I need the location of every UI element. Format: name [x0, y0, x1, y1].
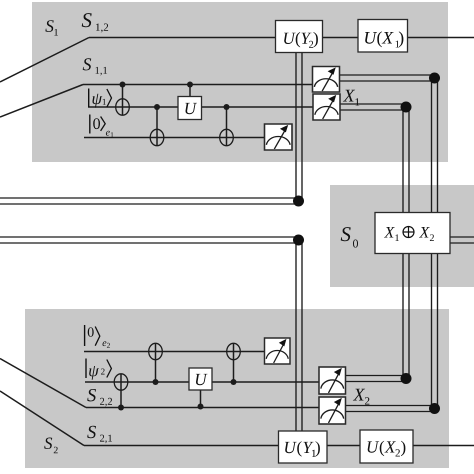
label S2,2 — [87, 389, 112, 406]
gate box U(X1) — [358, 20, 408, 53]
gate box U bottom (controlled-U) — [189, 368, 212, 390]
classical wire Y2 horizontal pair — [0, 198, 302, 204]
gate box U(Y1) — [279, 431, 328, 463]
junction dot Y1 — [293, 235, 304, 246]
label S2,1 — [87, 426, 112, 443]
wire psi1 horizontal — [88, 106, 313, 108]
controlled-U bottom: control dot on S2,2 — [200, 390, 202, 407]
wire S2,2 horizontal — [86, 407, 319, 409]
label ket psi1 — [88, 89, 90, 108]
label S1 — [45, 20, 58, 35]
CNOT top 3: control on psi1, target on 0_e1 — [220, 107, 234, 146]
label S1,1 — [83, 58, 107, 75]
measurement meter row psi1 — [313, 94, 340, 120]
label X2 — [353, 389, 370, 405]
CNOT top 1: control on S1,1, target on psi1 — [116, 85, 130, 116]
wire S1,1 horizontal — [83, 84, 313, 86]
gate box U(X2) — [360, 430, 413, 463]
CNOT top 2: control on psi1, target on 0_e1 — [150, 107, 164, 146]
CNOT bottom 3: target on 0_e2, control on psi2 — [227, 343, 241, 382]
label ket 0_e2 — [84, 325, 86, 346]
junction dot top of X2-line — [401, 102, 412, 113]
wire S2,1 horizontal — [84, 445, 474, 447]
region S2 shaded box — [25, 309, 449, 468]
measurement meter row S1,1 — [313, 67, 340, 93]
label ket psi2 — [85, 359, 87, 379]
classical wire XOR output pair — [450, 237, 474, 243]
gate box X1 xor X2 — [375, 213, 450, 254]
wire 0_e1 horizontal — [84, 137, 265, 139]
label S1,2 — [82, 13, 108, 32]
wire S2,1 input diagonal — [0, 391, 84, 446]
controlled-U top: control dot on S1,1 — [189, 85, 191, 99]
label S0 — [341, 227, 358, 248]
wire S1,1 input diagonal — [0, 85, 83, 118]
classical wire meter-A output pair — [340, 75, 438, 81]
wire psi2 horizontal — [85, 381, 319, 383]
CNOT bottom 1: target on psi2, control on S2,2 — [114, 374, 128, 408]
label S2 — [44, 438, 58, 454]
classical wire meter-A' output pair — [346, 406, 438, 412]
classical wire Y1 vertical pair to U(Y1) — [296, 237, 302, 431]
junction dot Y2 — [293, 196, 304, 207]
measurement meter row 0_e1 — [265, 124, 293, 150]
CNOT bottom 2: target on 0_e2, control on psi2 — [149, 343, 163, 382]
measurement meter row 0_e2 — [265, 338, 291, 364]
classical wire Y2 vertical pair from U(Y2) — [296, 52, 302, 204]
wire S1,2 input diagonal — [0, 38, 89, 83]
label X1 — [343, 90, 359, 106]
gate box U(Y2) — [276, 21, 323, 53]
classical wire meter-B output pair — [340, 104, 409, 110]
region S0 shaded box — [330, 185, 474, 287]
junction dot X1 top — [429, 73, 440, 84]
classical wire X1 vertical pair — [432, 75, 438, 412]
classical wire X2-line vertical pair — [403, 104, 409, 382]
wire S1,2 horizontal — [89, 37, 474, 39]
label ket 0_e1 — [89, 115, 91, 134]
wire S2,2 input diagonal — [0, 359, 86, 408]
measurement meter row S2,2 — [319, 397, 345, 424]
measurement meter row psi2 — [319, 367, 345, 394]
junction dot X2 bottom — [429, 403, 440, 414]
gate box U top (controlled-U) — [178, 97, 202, 120]
junction dot bottom of X2-line — [401, 373, 412, 384]
wire 0_e2 horizontal — [84, 351, 265, 353]
classical wire Y1 horizontal pair — [0, 237, 302, 243]
classical wire meter-B' output pair — [346, 376, 410, 382]
region S1 shaded box — [32, 2, 448, 162]
